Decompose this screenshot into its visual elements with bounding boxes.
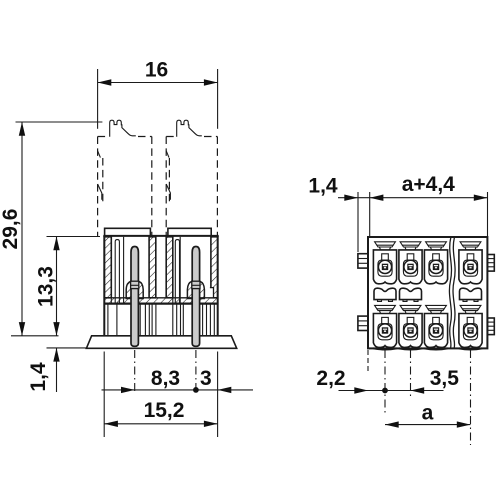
contact P1 top row: cell [373, 250, 396, 284]
contact P2 top row: screw circle [404, 260, 417, 273]
dim 8,3 / 3: dimension line [102, 389, 218, 391]
dim 15,2: right arrowhead [204, 421, 218, 427]
contact P3 bottom row: tab [426, 305, 447, 310]
dim 8,3 / 3: dot at pin2 [193, 387, 199, 393]
dim a: left arrowhead [385, 421, 399, 427]
contact P2 top row: screw slot square [407, 264, 413, 270]
right mounting tab bottom [487, 318, 494, 335]
tower 1 funnel [126, 281, 143, 298]
contact P2 bottom row: cell [399, 314, 422, 348]
dim 16: left arrowhead [98, 79, 112, 85]
svg-text:13,3: 13,3 [35, 266, 58, 307]
pin 1 [131, 247, 138, 347]
left mounting tab bottom [358, 316, 368, 330]
plug 1 dashed top edge [98, 136, 152, 138]
header rim tower 1 [105, 228, 151, 236]
dim 13,3: bottom arrowhead [53, 322, 59, 336]
dim 1,4: arrowhead pointing up [53, 348, 59, 362]
dim 1,4: bottom extension line [47, 347, 93, 349]
contact P3 bottom row: screw circle [429, 324, 442, 337]
dim a+4,4: dimension line [358, 197, 488, 199]
svg-text:a+4,4: a+4,4 [402, 173, 455, 196]
contact P2 bottom row: clamp body [407, 317, 414, 323]
svg-text:3: 3 [200, 367, 212, 390]
svg-text:8,3: 8,3 [151, 367, 180, 390]
contact P2 top row: tab [400, 242, 421, 247]
contact P3 top row: screw slot square [433, 264, 439, 270]
contact P4 bottom row: tab [460, 305, 481, 310]
dim 1,4: extension line at tab edge [357, 192, 359, 252]
contact P1 bottom row: screw circle [378, 324, 391, 337]
body outer left edge [103, 236, 105, 336]
plug 1 latch solid [110, 120, 136, 137]
dim 16: right arrowhead [204, 79, 218, 85]
plug 2 dashed outline left edge [165, 137, 167, 237]
contact P3 top row: cell [424, 250, 447, 284]
bottom dims: right extension line [217, 352, 219, 438]
contact P4 bottom row: clamp body [467, 317, 474, 323]
contact P3 bottom row: screw slot square [433, 327, 439, 333]
dim 3: outside arrow pointing left with tail [218, 387, 232, 393]
pin 1 collar [131, 281, 139, 288]
dim 2,2: tail + arrow pointing right [339, 390, 386, 392]
dim 16: extension line right [217, 69, 219, 129]
contact P1 top row: screw slot square [382, 264, 388, 270]
pin 2 collar [192, 281, 200, 288]
dim 15,2: dimension line [104, 423, 217, 425]
plug 2 hook detail upper [166, 151, 169, 158]
contact P3 top row: clamp body [433, 254, 440, 260]
dim a: dimension line [385, 424, 471, 426]
plug 2 dashed top edge [166, 136, 217, 138]
header rim tower 2 [168, 228, 211, 236]
pin 2 centerline [195, 350, 197, 390]
contact P2 top row: clamp body [407, 254, 414, 260]
dim 1,4: dimension tail line [56, 348, 58, 392]
svg-text:16: 16 [145, 59, 168, 82]
contact columns [373, 242, 482, 348]
centerline col4 [470, 350, 472, 445]
bottom dims right view: dashed ext at body left edge [367, 350, 369, 374]
contact P4 bottom row: cell [459, 314, 482, 348]
svg-text:2,2: 2,2 [316, 367, 345, 390]
contact P1 bottom row: cell [373, 314, 396, 348]
plug 1 dashed outline left edge [97, 137, 99, 237]
contact P1 top row: clamp body [382, 254, 389, 260]
svg-text:15,2: 15,2 [144, 399, 185, 422]
contact P1 top row: screw circle [378, 260, 391, 273]
tower 2 contact rod [175, 240, 179, 304]
dim 29,6: top extension line [16, 121, 103, 123]
centerline col1 [384, 350, 386, 415]
contact P1 bottom row: tab [375, 305, 396, 310]
dim 3,5: line + arrow pointing left at col2 [385, 390, 444, 392]
contact P3 bottom row: clamp body [433, 317, 440, 323]
dim 2,2 / 3,5: dot at col1 [382, 388, 388, 394]
contact P3 bottom row: cell [424, 314, 447, 348]
contact P1 top row: tab [375, 242, 396, 247]
position K2: coding key [400, 288, 422, 299]
dim a+4,4: right extension line [487, 192, 489, 236]
dim 16: extension line left [97, 69, 99, 129]
plug 2 hook detail lower [166, 184, 170, 200]
dim 8,3: arrow at pin1 pointing right [121, 387, 135, 393]
body outer right edge [217, 236, 219, 336]
contact P3 top row: screw circle [429, 260, 442, 273]
tower 2 right wall hatched [211, 237, 218, 298]
dim a: right arrowhead [457, 421, 471, 427]
dim 29,6: dimension line [21, 122, 23, 336]
contact P2 bottom row: screw circle [404, 324, 417, 337]
pin 1 centerline [134, 350, 136, 393]
tower 1 center wall hatched [149, 237, 156, 298]
tower 2 funnel [187, 281, 204, 298]
dim 16: dimension line [98, 82, 218, 84]
svg-text:1,4: 1,4 [308, 175, 338, 198]
dim 29,6: bottom extension line [11, 335, 59, 337]
contact P4 top row: clamp body [467, 254, 474, 260]
dim 29,6: top arrowhead [19, 122, 25, 136]
left mounting tab top [358, 254, 368, 268]
dim 29,6: bottom arrowhead [19, 322, 25, 336]
contact P4 top row: screw slot square [467, 264, 473, 270]
dim 1,4: extension line at body edge [369, 192, 371, 236]
dim 13,3: top arrowhead [53, 237, 59, 251]
plug 1 inner dashed line [102, 158, 104, 203]
position K3: coding key [460, 288, 482, 299]
svg-text:3,5: 3,5 [430, 367, 460, 390]
plug 1 hook detail upper [98, 151, 101, 158]
dim a+4,4: left arrowhead [370, 195, 384, 201]
PCB [86, 336, 236, 349]
bottom dims: left extension line [103, 352, 105, 438]
contact P2 bottom row: screw slot square [407, 327, 413, 333]
contact P4 bottom row: screw circle [464, 324, 477, 337]
tower 2 slot lines [172, 237, 174, 303]
right mounting tab top [487, 255, 494, 272]
pin 2 [192, 247, 199, 347]
contact P4 bottom row: screw slot square [467, 327, 473, 333]
connector front body [368, 237, 487, 348]
svg-text:1,4: 1,4 [27, 362, 50, 392]
dim 1,4: tail + arrow pointing right [338, 197, 358, 199]
legs tower2 group [173, 303, 184, 336]
contact P2 bottom row: tab [400, 305, 421, 310]
plug 2 dashed outline right edge [216, 137, 218, 237]
position K1: coding key [374, 288, 396, 299]
contact P4 top row: screw circle [464, 260, 477, 273]
body bottom scalloped edge [373, 348, 482, 349]
legs below base: left group [108, 303, 117, 336]
svg-text:a: a [422, 401, 434, 424]
legs center group [140, 303, 156, 336]
contact P1 bottom row: clamp body [382, 317, 389, 323]
header body top edge [103, 235, 218, 237]
dim a+4,4: right arrowhead [474, 195, 488, 201]
plug 1 dashed outline right edge [151, 137, 153, 237]
contact P2 top row: cell [399, 250, 422, 284]
dim 13,3: dimension line [56, 237, 58, 336]
contact P4 top row: cell [459, 250, 482, 284]
tower 2 right wall notch [210, 288, 214, 298]
svg-text:29,6: 29,6 [0, 209, 22, 250]
base band [104, 298, 217, 304]
centerline col2 [410, 350, 412, 398]
tower 2 left wall hatched [166, 237, 173, 298]
contact P4 top row: tab [460, 242, 481, 247]
contact P1 bottom row: screw slot square [382, 327, 388, 333]
legs right group [203, 303, 215, 336]
break line wavy [449, 238, 451, 349]
contact P3 top row: tab [426, 242, 447, 247]
dim 13,3: top extension line [47, 236, 101, 238]
plug 2 inner dashed line [168, 158, 170, 203]
tower 1 left wall hatched [104, 237, 111, 298]
plug 2 latch solid [177, 120, 202, 137]
tower 1 slot lines [110, 237, 112, 303]
dim 15,2: left arrowhead [104, 421, 118, 427]
tower 1 contact rod [115, 240, 119, 304]
plug 1 hook detail lower [98, 184, 102, 200]
